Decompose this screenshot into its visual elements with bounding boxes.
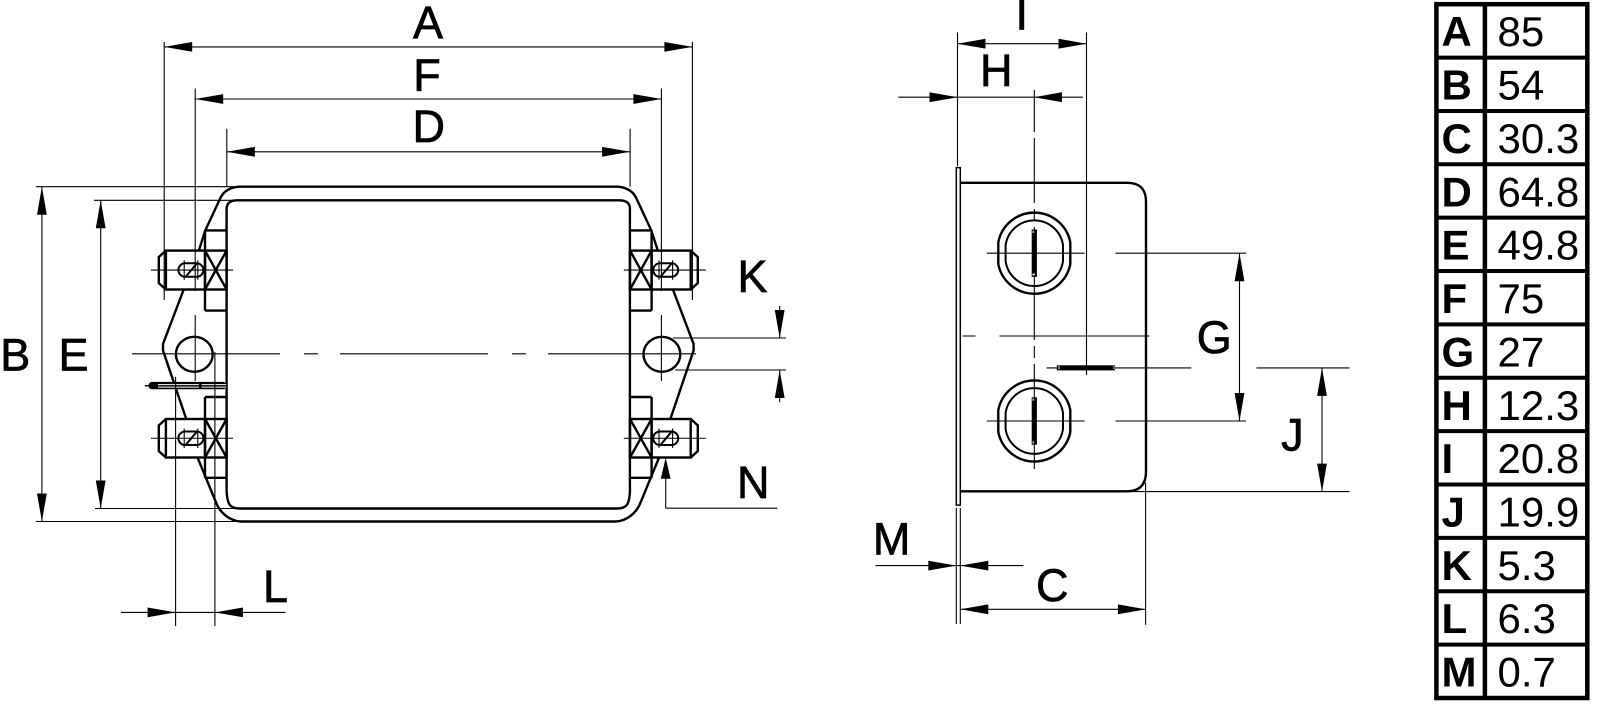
svg-text:12.3: 12.3 bbox=[1498, 382, 1580, 429]
hole centerline left / F extension bbox=[194, 89, 196, 382]
svg-text:A: A bbox=[413, 0, 443, 48]
left flange with mounting hole bbox=[163, 290, 213, 419]
svg-text:5.3: 5.3 bbox=[1498, 542, 1556, 589]
dimension table bbox=[1436, 4, 1587, 698]
dimension C bbox=[960, 483, 1146, 625]
faston tab bottom-right bbox=[624, 419, 706, 458]
svg-text:64.8: 64.8 bbox=[1498, 168, 1580, 215]
body centerline side view bbox=[963, 335, 1157, 337]
dimension G bbox=[1116, 253, 1247, 421]
dimension I bbox=[958, 0, 1087, 375]
faston tab top-left bbox=[151, 251, 233, 290]
svg-text:H: H bbox=[1442, 382, 1472, 429]
svg-text:49.8: 49.8 bbox=[1498, 222, 1580, 269]
dimension B bbox=[0, 187, 240, 522]
svg-text:0.7: 0.7 bbox=[1498, 649, 1556, 696]
svg-text:19.9: 19.9 bbox=[1498, 489, 1580, 536]
svg-text:F: F bbox=[1442, 275, 1468, 322]
svg-text:K: K bbox=[737, 251, 767, 302]
mounting ear top-right bbox=[630, 230, 652, 310]
svg-text:E: E bbox=[1442, 222, 1470, 269]
svg-text:A: A bbox=[1442, 8, 1472, 55]
svg-text:L: L bbox=[263, 561, 288, 612]
svg-text:J: J bbox=[1442, 489, 1465, 536]
svg-text:C: C bbox=[1036, 560, 1069, 611]
screw terminal upper bbox=[987, 213, 1085, 294]
svg-text:G: G bbox=[1442, 328, 1475, 375]
svg-text:D: D bbox=[1442, 168, 1472, 215]
svg-text:L: L bbox=[1442, 595, 1468, 642]
case body side view bbox=[960, 183, 1146, 492]
terminal tab side view bbox=[1047, 365, 1192, 370]
svg-text:E: E bbox=[58, 330, 88, 381]
terminal pin bbox=[145, 382, 227, 389]
svg-text:I: I bbox=[1016, 0, 1029, 40]
dimension J bbox=[1130, 368, 1350, 492]
dimension F bbox=[195, 50, 661, 104]
mounting ear bottom-right bbox=[630, 397, 652, 478]
mounting ear bottom-left bbox=[205, 397, 227, 478]
svg-text:D: D bbox=[413, 101, 446, 152]
svg-text:K: K bbox=[1442, 542, 1472, 589]
right flange with mounting hole bbox=[644, 290, 694, 419]
dimension E bbox=[58, 200, 240, 508]
svg-text:B: B bbox=[1442, 62, 1472, 109]
mounting ear top-left bbox=[205, 230, 227, 310]
svg-text:30.3: 30.3 bbox=[1498, 115, 1580, 162]
flange plate side view bbox=[956, 168, 960, 506]
svg-text:75: 75 bbox=[1498, 275, 1545, 322]
svg-text:G: G bbox=[1197, 312, 1232, 363]
svg-text:N: N bbox=[737, 457, 770, 508]
svg-text:H: H bbox=[980, 45, 1013, 96]
screw terminal lower bbox=[987, 380, 1085, 461]
dimension D bbox=[227, 101, 630, 187]
svg-text:M: M bbox=[873, 513, 911, 564]
dimension H bbox=[898, 45, 1083, 102]
dimension L bbox=[121, 352, 288, 626]
svg-text:27: 27 bbox=[1498, 328, 1545, 375]
horizontal centerline front view bbox=[132, 353, 714, 355]
svg-text:85: 85 bbox=[1498, 8, 1545, 55]
leader N bbox=[661, 457, 778, 508]
svg-text:20.8: 20.8 bbox=[1498, 435, 1580, 482]
hole centerline right / F extension bbox=[660, 89, 662, 382]
svg-text:F: F bbox=[413, 50, 441, 101]
screw centerline vertical bbox=[1033, 90, 1035, 469]
dimension K bbox=[673, 251, 786, 402]
svg-text:B: B bbox=[0, 330, 30, 381]
svg-text:J: J bbox=[1281, 409, 1304, 460]
dimension A bbox=[164, 0, 692, 300]
svg-text:6.3: 6.3 bbox=[1498, 595, 1556, 642]
svg-text:I: I bbox=[1442, 435, 1454, 482]
svg-text:C: C bbox=[1442, 115, 1472, 162]
faston tab bottom-left bbox=[151, 419, 233, 458]
svg-text:54: 54 bbox=[1498, 62, 1545, 109]
faston tab top-right bbox=[624, 251, 706, 290]
svg-text:M: M bbox=[1442, 649, 1477, 696]
case outline front view bbox=[198, 187, 659, 522]
dimension M bbox=[873, 508, 1024, 624]
